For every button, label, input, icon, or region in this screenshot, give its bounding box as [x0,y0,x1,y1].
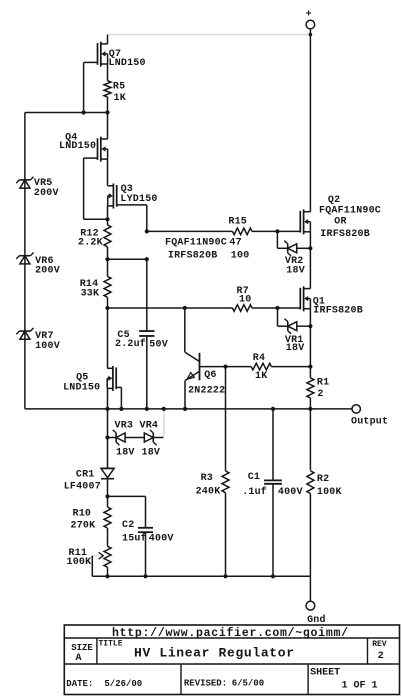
node junction dot gate bias [82,110,86,114]
label Q6 [204,370,216,381]
svg-text:SHEET: SHEET [310,668,340,679]
svg-text:REV: REV [372,640,387,649]
transistor Q5 [107,366,116,391]
label VR4 [140,420,159,431]
svg-text:1 OF 1: 1 OF 1 [342,680,378,691]
wire Q3 source [107,206,109,219]
wire R15 left [147,230,233,232]
wire VR4 right lead [153,437,164,439]
resistor R7 [233,305,253,312]
svg-text:100: 100 [231,251,250,262]
svg-text:2: 2 [317,389,323,400]
svg-text:5/26/00: 5/26/00 [104,679,142,689]
wire VR2 drop [276,231,278,248]
svg-text:IRFS820B: IRFS820B [313,305,363,316]
resistor R4 [251,363,271,370]
svg-text:100K: 100K [67,557,92,568]
wire VR4 gray riser [163,409,165,438]
transistor Q6 [185,352,200,381]
label VR5 value 200V [34,188,59,199]
wire C2 top horiz [108,495,146,497]
wire R12 top [107,219,109,225]
label VR3 [115,420,134,431]
label VR6 [35,256,54,267]
label rev 2 [378,651,384,662]
label C1 [248,472,260,483]
label DATE [66,679,93,689]
resistor R11 potentiometer [104,546,111,567]
zener VR2 [284,241,296,256]
wire R2 bottom [309,494,311,577]
wire R4 left [226,366,252,368]
svg-text:VR4: VR4 [140,420,159,431]
label C5 value 50V [149,340,168,351]
zener VR4 [144,430,156,445]
wire node A horizontal [25,112,108,114]
label Q1 [313,296,325,307]
wire VR1 right lead [297,325,311,327]
wire ground bus [92,575,310,577]
svg-text:LND150: LND150 [59,141,96,152]
resistor R5 [104,81,111,97]
power + terminal label [306,10,312,21]
zener VR1 [284,319,296,334]
label C2 value 400V [149,534,174,545]
svg-text:18V: 18V [116,447,135,458]
wire R11 wiper drop [91,556,93,577]
wire C2 bottom [145,532,147,576]
svg-text:R2: R2 [317,474,329,485]
title block divider size/title [96,638,98,664]
svg-text:R10: R10 [73,509,92,520]
label Q7 value LND150 [109,58,146,69]
wire VR2 left lead [277,247,287,249]
wire R12 bottom [107,247,109,259]
wire Q4 source to Q3 drain [107,159,109,184]
label R7 value 10 [239,294,251,305]
label Q7 [109,49,121,60]
svg-text:200V: 200V [34,188,59,199]
svg-text:Q6: Q6 [204,370,216,381]
resistor R10 [104,507,111,528]
resistor R14 [104,276,111,297]
wire Q6 collector [184,308,186,352]
wire C5 bottom [146,336,148,409]
node VR2 right dot [308,246,312,250]
node R3 bus dot [223,574,227,578]
label R10 value 270K [71,521,96,532]
wire Q6 base to R3 [225,367,227,471]
label R14 [80,279,99,290]
wire R11 bottom [107,567,109,576]
wire Q3 drain horiz stub [107,185,109,186]
label VR7 [35,331,54,342]
node R11 bus dot [105,574,109,578]
node Q6 emitter bus dot [183,407,187,411]
wire R7 left [108,307,233,309]
wire Q5 drain [107,308,109,368]
svg-text:10: 10 [239,294,251,305]
wire Q3 gate drop [146,205,148,232]
svg-text:R3: R3 [201,473,213,484]
label Q4 value LND150 [59,141,96,152]
svg-text:+: + [306,10,312,21]
wire C2 top vert [145,496,147,527]
svg-text:2N2222: 2N2222 [188,386,225,397]
label R5 value 1K [114,93,126,104]
svg-text:SIZE: SIZE [71,643,93,653]
wire VR2 right lead [297,247,311,249]
svg-text:100K: 100K [317,487,342,498]
wire Q3 gate [117,204,147,206]
label title text [134,646,294,661]
transistor Q2 [300,209,310,234]
wire Q7 gate [84,61,98,63]
label R15 [228,217,247,228]
node VR1 right dot [308,324,312,328]
resistor R12 [104,225,111,247]
transistor Q3 [108,184,117,209]
svg-text:15uf: 15uf [122,533,147,545]
label VR1 [285,335,304,346]
svg-text:IRFS820B: IRFS820B [168,251,218,262]
wire R2 top [309,409,311,471]
label sheet value [342,680,378,691]
label Q3 [121,184,133,195]
label R14 value 33K [81,289,100,300]
svg-text:400V: 400V [149,534,174,545]
node C5 column dot [145,257,149,261]
svg-text:FQAF11N90C: FQAF11N90C [319,206,381,217]
label Q6 value 2N2222 [188,386,225,397]
label VR1 value 18V [286,343,305,354]
diode CR1 [101,468,114,478]
label date value [104,679,142,689]
wire Q4 drain [107,113,109,140]
wire Q2 source to Q1 [309,232,311,289]
label R12 [80,228,99,239]
wire R1 bottom [309,398,311,409]
title block divider revised/sheet [307,664,309,695]
resistor R15 [233,228,253,235]
label VR2 value 18V [286,266,305,277]
capacitor C2 [138,528,153,532]
label R3 value 240K [196,487,221,498]
label REVISED [184,679,227,689]
svg-text:IRFS820B: IRFS820B [320,229,370,240]
label TITLE [99,640,123,649]
label Output [351,417,388,428]
label revised value [232,679,264,689]
label C5 value 2.2uf [115,338,146,350]
label R2 [317,474,329,485]
svg-text:REVISED:: REVISED: [184,679,227,689]
label VR3 value 18V [116,447,135,458]
label Q2 value IRFS820B [320,229,370,240]
wire C1 top [272,409,274,481]
svg-text:C1: C1 [248,472,260,483]
svg-text:R15: R15 [228,217,247,228]
svg-text:270K: 270K [71,521,96,532]
node VR1 tap dot [275,306,279,310]
svg-text:OR: OR [334,216,346,227]
wire R7 to Q1 gate [252,307,300,309]
label SHEET [310,668,340,679]
svg-text:50V: 50V [149,340,168,351]
svg-text:R4: R4 [253,353,265,364]
svg-text:DATE:: DATE: [66,679,93,689]
label R3 [201,473,213,484]
node R12 bottom dot [105,257,109,261]
wire output bus [25,408,352,410]
transistor Q4 [98,137,108,162]
label R4 [253,353,265,364]
label Q2 value FQAF11N90C [319,206,381,217]
wire VR1 drop [277,308,279,326]
wire Q5 gate drop [120,387,122,409]
label R11 [69,548,88,559]
title block divider date/revised [180,664,182,695]
label Q1 value IRFS820B [313,305,363,316]
svg-text:R5: R5 [113,82,125,93]
node VR3 dot [105,435,109,439]
title block divider title/rev [367,638,369,664]
svg-text:47: 47 [229,237,241,248]
label Q2 [328,195,340,206]
svg-text:TITLE: TITLE [99,640,123,649]
wire left rail [24,113,26,409]
node R15 left dot [145,229,149,233]
wire gnd drop [309,576,311,601]
svg-text:18V: 18V [286,343,305,354]
svg-text:2: 2 [378,651,384,662]
node C1 bus dot [271,407,275,411]
label VR2 [285,256,304,267]
label R4 value 1K [255,371,267,382]
node Q5 gate bus dot [119,407,123,411]
svg-text:1K: 1K [255,371,267,382]
label VR4 value 18V [142,447,161,458]
wire VR3 vertical [107,409,109,438]
wire Q4 gate bias vertical [83,158,85,219]
zener VR6 [16,253,33,264]
svg-text:LF4007: LF4007 [64,482,101,493]
node C1 bus dot2 [271,574,275,578]
svg-text:1K: 1K [114,93,126,104]
wire R4 right [271,366,310,368]
label R1 value 2 [317,389,323,400]
svg-text:100V: 100V [35,341,60,352]
label url [112,627,348,640]
svg-text:18V: 18V [286,266,305,277]
label Gnd [307,614,326,626]
node B junction dot [105,217,109,221]
svg-text:33K: 33K [81,289,100,300]
label C1 value .1uf [242,486,267,498]
label SIZE [71,643,93,653]
svg-text:C2: C2 [122,520,134,531]
wire C5 top [146,259,148,331]
wire C1 bottom [272,484,274,577]
wire R5 bottom [107,97,109,113]
terminal Gnd circle [306,601,315,610]
label Q2 value OR [334,216,346,227]
label R7 [237,286,249,297]
label R12 value 2.2K [78,238,103,249]
wire CR1 bottom [107,479,109,497]
wire VR3 left lead [108,437,117,439]
svg-text:R1: R1 [317,378,329,389]
transistor Q7 [98,42,108,67]
label Q5 [76,372,88,383]
terminal Output circle [352,405,360,413]
wire R10-R11 [107,528,109,546]
power + terminal circle [306,20,315,29]
label C5 [117,330,129,341]
svg-text:CR1: CR1 [76,469,95,480]
wire Q5 gate [116,386,121,388]
label R11 value 100K [67,557,92,568]
title block row separator 1 [64,637,399,639]
wire R15 to Q2 gate [252,230,300,232]
zener VR3 [113,430,125,445]
wire R3 bottom [225,493,227,577]
resistor R3 [222,471,229,493]
label Q4 [65,133,77,144]
label VR5 [34,178,53,189]
svg-text:http://www.pacifier.com/~goimm: http://www.pacifier.com/~goimm/ [112,627,348,640]
wire R12 to C5 node [108,258,147,260]
wire Q7 gate bias vertical [83,62,85,112]
wire VR1 left lead [278,325,288,327]
svg-text:LND150: LND150 [63,383,100,394]
wire node B horizontal [84,218,108,220]
zener VR7 [16,328,33,339]
label CR1 value LF4007 [64,482,101,493]
capacitor C1 [264,480,282,483]
label R1 [317,378,329,389]
svg-text:LYD150: LYD150 [120,194,157,205]
svg-text:.1uf: .1uf [242,486,267,498]
wire CR1 top [107,438,109,469]
wire Q5 source [107,388,109,409]
wire gray top rail [108,34,311,36]
svg-text:Output: Output [351,417,388,428]
node A junction dot R5/Q4 [105,110,109,114]
wire R1 top [309,367,311,378]
label Q5 value LND150 [63,383,100,394]
node R4 left dot [223,365,227,369]
label C2 value 15uf [122,533,147,545]
node Q5 source bus dot [105,407,109,411]
wire Q4 gate [84,157,98,159]
svg-text:LND150: LND150 [109,58,146,69]
wire + terminal drop [309,29,313,44]
wire Q7 source to R5 [107,64,109,81]
svg-text:HV Linear Regulator: HV Linear Regulator [134,646,294,661]
svg-text:200V: 200V [35,266,60,277]
label R5 [113,82,125,93]
node C5 bus dot [145,407,149,411]
svg-text:A: A [76,653,82,664]
resistor R2 [307,471,314,494]
svg-text:18V: 18V [142,447,161,458]
node VR2 tap dot [275,229,279,233]
capacitor C5 [139,331,154,336]
label alt values FQAF11N90C 47 [165,237,242,248]
node CR1 bottom dot [105,494,109,498]
svg-text:240K: 240K [196,487,221,498]
label R2 value 100K [317,487,342,498]
resistor R1 [307,378,314,398]
node C2 bus dot [143,574,147,578]
node R1 bus dot [308,407,312,411]
node Q6 collector dot [183,306,187,310]
svg-text:VR3: VR3 [115,420,134,431]
transistor Q1 [300,286,310,311]
label CR1 [76,469,95,480]
svg-text:FQAF11N90C: FQAF11N90C [165,237,227,248]
label REV [372,640,387,649]
wire Q7 drain [107,35,109,44]
svg-text:Q5: Q5 [76,372,88,383]
node R14 bottom dot [105,306,109,310]
wire VR3-VR4 middle [125,437,144,439]
svg-text:400V: 400V [278,487,303,498]
label R10 [73,509,92,520]
label VR6 value 200V [35,266,60,277]
label size A [76,653,82,664]
node R4 right dot [308,365,312,369]
svg-text:2.2uf: 2.2uf [115,338,146,350]
label C2 [122,520,134,531]
label Q3 value LYD150 [120,194,157,205]
svg-text:2.2K: 2.2K [78,238,103,249]
node VR4 bus dot [162,407,166,411]
svg-text:Q2: Q2 [328,195,340,206]
wire R10 top [107,496,109,507]
wire R14 top [107,259,109,276]
title block row separator 2 [64,663,399,665]
wire R14 bottom [107,297,109,308]
title block outer border [64,625,399,695]
svg-text:6/5/00: 6/5/00 [232,679,264,689]
wire Q6 base [200,366,226,368]
wire Q6 emitter [184,381,186,409]
wire Q1 source down [309,309,311,367]
zener VR5 [16,177,33,188]
wiper R11 arrow [92,552,103,559]
label alt values IRFS820B 100 [168,251,250,262]
label C1 value 400V [278,487,303,498]
wire Q2 drain [309,44,311,212]
label VR7 value 100V [35,341,60,352]
